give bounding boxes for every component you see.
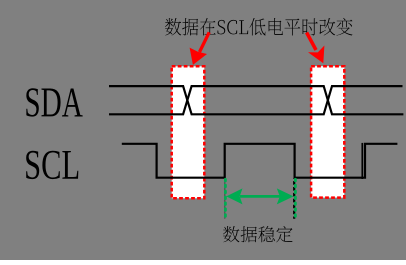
caption: data stable (Chinese) [223,226,293,242]
svg-text:SCL: SCL [24,142,80,189]
black dotted guide remnant left (under SCL rising edge) [224,178,226,219]
highlight box 1 (white fill, red dashed border) over first SDA transition [172,66,205,198]
SCL doubled rising edge (outer line) [361,143,363,179]
green dotted guide line left (at SCL rising edge) [224,179,227,219]
green double-headed arrow (stable interval) [226,188,293,204]
SDA data line A (starts high, crosses at each X) [109,86,403,114]
red arrow 2 (from caption to box 2) [307,33,325,64]
red arrow 1 (from caption to box 1) [190,32,210,65]
caption: data changes while SCL low (Chinese) [165,18,353,36]
svg-text:SDA: SDA [24,79,83,126]
green dotted guide line right (at SCL falling edge) [294,179,297,219]
black dotted guide remnant right (under SCL falling edge) [293,178,295,219]
SDA data line B (starts low, crosses at each X) [109,86,403,114]
SCL clock waveform [122,144,398,178]
highlight box 2 (white fill, red dashed border) over second SDA transition [311,66,344,197]
